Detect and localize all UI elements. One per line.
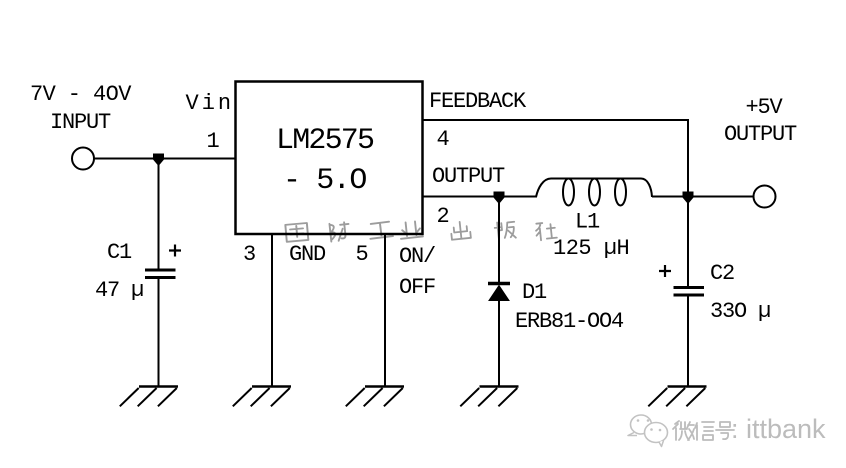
wire: pin 5 ON/OFF to ground [384,234,386,386]
svg-text:2: 2 [437,204,449,229]
terminal: input connector [72,148,94,170]
svg-text:INPUT: INPUT [50,110,111,135]
ground (C2) [648,387,706,407]
ground (pin 3) [233,387,291,407]
diode D1 top wire [498,197,500,283]
svg-text:L1: L1 [575,210,600,235]
svg-text:Vin: Vin [186,91,235,116]
svg-text:LM2575: LM2575 [276,124,374,158]
watermark: wechat id hanzi [673,421,734,440]
polarity + of C1 [169,245,181,257]
capacitor C1 plates [145,269,176,272]
capacitor C2 bottom wire [687,296,689,386]
junction: output node [683,192,694,205]
svg-text:OUTPUT: OUTPUT [432,164,505,189]
ground (pin 5) [346,387,404,407]
wire: pin 3 GND to ground [271,234,273,386]
diode D1 bottom wire [498,300,500,386]
wire: input to pin 1 (Vin) [95,158,237,160]
svg-text:7V - 4OV: 7V - 4OV [30,82,132,107]
IC U1: LM2575-5.0 regulator body [236,82,423,235]
wire: inductor to output terminal [652,196,754,198]
svg-text:3: 3 [243,242,255,267]
svg-text:GND: GND [289,242,326,267]
svg-text:OFF: OFF [399,275,435,300]
diode D1 cathode bar [488,282,510,286]
watermark: publisher hanzi (decorative gray) [285,221,557,242]
wire: feedback from pin 4 to output node [423,120,688,192]
svg-text:ERB81-OO4: ERB81-OO4 [515,309,624,334]
svg-text:125 µH: 125 µH [553,236,629,261]
capacitor C1 top wire [158,159,160,269]
capacitor C1 bottom wire [158,279,160,386]
terminal: output connector [754,186,776,208]
junction: catch diode node [494,192,505,205]
capacitor C2 top wire [687,192,689,286]
wire: pin 2 output to inductor [423,196,537,198]
svg-text:FEEDBACK: FEEDBACK [429,89,527,114]
ground (D1) [460,387,518,407]
svg-text:4: 4 [437,127,450,152]
svg-text:33O µ: 33O µ [710,299,770,324]
junction: input node at C1 [153,154,164,167]
polarity + of C2 [659,265,671,277]
svg-text:1: 1 [207,129,220,154]
svg-text:+5V: +5V [746,95,784,120]
svg-text:- 5.O: - 5.O [283,164,366,198]
diode D1 anode triangle [489,286,509,301]
svg-text:5: 5 [356,242,368,267]
svg-text:47 µ: 47 µ [95,278,143,303]
watermark: wechat logo bubbles [628,415,668,447]
svg-text:OUTPUT: OUTPUT [724,122,797,147]
svg-text:C2: C2 [710,261,734,286]
ground (C1) [120,387,178,407]
svg-text:D1: D1 [522,280,547,305]
svg-text:C1: C1 [107,240,132,265]
capacitor C2 plates [674,286,705,289]
svg-text:: ittbank: : ittbank [731,414,826,444]
svg-text:ON/: ON/ [399,244,435,269]
inductor L1 [536,179,652,198]
